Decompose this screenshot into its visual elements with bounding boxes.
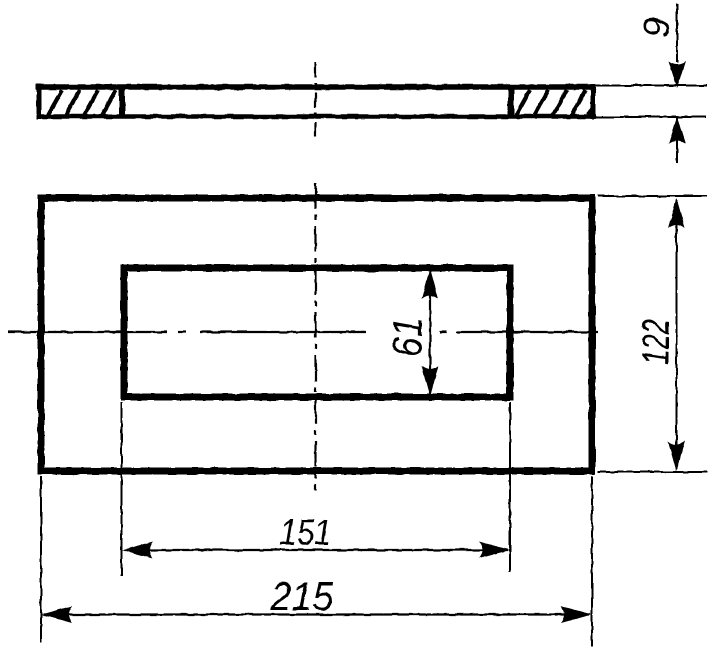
svg-text:215: 215 [270, 575, 335, 619]
svg-text:151: 151 [280, 512, 332, 553]
svg-text:9: 9 [636, 17, 677, 37]
svg-text:122: 122 [636, 319, 678, 365]
svg-text:61: 61 [384, 317, 431, 357]
